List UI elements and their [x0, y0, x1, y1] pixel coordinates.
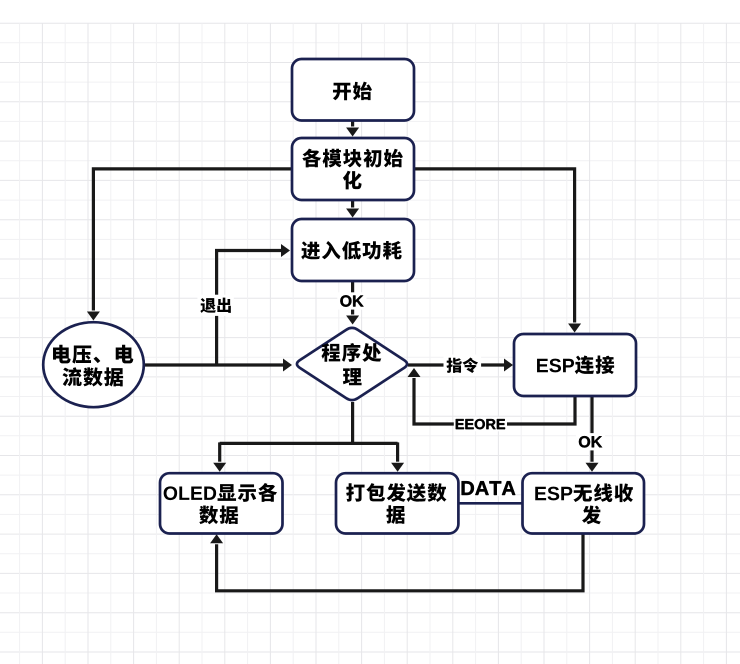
decision diamond 程序处理 — [297, 328, 407, 400]
label 程序处 line1 — [321, 343, 381, 362]
wire: 进入低功耗 to 程序处理 diamond (OK) — [346, 281, 359, 325]
process box OLED显示各数据 — [160, 473, 283, 533]
edge label 退出 — [197, 295, 233, 316]
wire: 开始 to 各模块初始化 — [346, 120, 359, 137]
label 理 line2 — [343, 368, 362, 385]
label ESP连接 — [537, 356, 614, 375]
label 进入低功耗 — [301, 241, 402, 260]
label OLED显示各 line1 — [164, 483, 278, 502]
wire: 程序处理 bottom split to OLED and 打包发送数据 — [213, 402, 404, 472]
wire: 各模块初始化 right to ESP连接 — [414, 169, 581, 333]
wire: 退出 branch up to 进入低功耗 — [217, 244, 290, 365]
wire: DATA link 打包发送数据 to ESP无线收发 — [458, 502, 523, 505]
edge label 指令 — [444, 355, 482, 377]
process box ESP无线收发 — [523, 473, 645, 533]
label ESP无线收 line1 — [535, 483, 633, 502]
edge label DATA — [461, 480, 517, 496]
label 开始 — [333, 82, 372, 101]
wire: 程序处理 right to ESP连接 (指令) — [408, 359, 513, 372]
wire: ellipse to 程序处理 diamond — [144, 359, 292, 372]
label 数据 line2 — [199, 506, 238, 525]
edge label EEORE — [454, 417, 507, 431]
label 据 line2 — [386, 505, 405, 524]
wire: ESP连接 to ESP无线收发 (OK) — [586, 396, 599, 472]
label 电压、电 line1 — [53, 345, 133, 364]
label 化 line2 — [343, 171, 362, 190]
process box ESP连接 — [514, 334, 636, 396]
label 各模块初始 line1 — [302, 149, 403, 168]
process box 开始 — [292, 59, 414, 121]
wire: ESP无线收发 bottom return to OLED bottom — [210, 534, 583, 591]
wire: ESP连接 bottom EEORE return to diamond right — [408, 368, 576, 424]
wire: 各模块初始化 left to 电压、电流数据 ellipse — [87, 169, 292, 321]
process box 进入低功耗 — [292, 219, 414, 281]
process box 各模块初始化 — [292, 138, 414, 200]
label 流数据 line2 — [63, 367, 124, 386]
wire: 各模块初始化 to 进入低功耗 — [346, 200, 359, 218]
label 打包发送数 line1 — [346, 483, 446, 502]
ellipse 电压、电流数据 — [43, 322, 144, 407]
process box 打包发送数据 — [336, 473, 458, 533]
edge label OK (ESP连接→ESP无线收发) — [576, 433, 605, 450]
label 发 line2 — [582, 505, 601, 524]
edge label OK (进入低功耗→程序处理) — [337, 292, 366, 309]
